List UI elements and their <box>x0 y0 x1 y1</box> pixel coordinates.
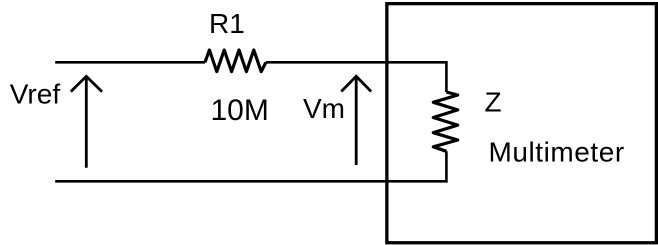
svg-text:Z: Z <box>485 87 502 118</box>
svg-text:Vm: Vm <box>303 93 345 124</box>
svg-text:10M: 10M <box>211 94 269 127</box>
svg-text:R1: R1 <box>209 8 245 39</box>
svg-text:Multimeter: Multimeter <box>489 137 625 168</box>
svg-text:Vref: Vref <box>10 78 61 109</box>
